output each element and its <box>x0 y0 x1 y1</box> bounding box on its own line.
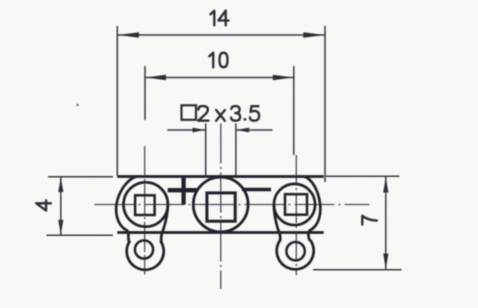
dimension 14: label <box>210 11 228 26</box>
left lower lobe outline <box>127 241 164 270</box>
dimension 14: dimension line <box>117 34 325 36</box>
callout label "2 x 3.5" <box>198 106 259 121</box>
dimension 7: extension line bottom <box>313 269 402 271</box>
right lobe outer silhouette outboard side <box>304 176 320 241</box>
dimension 14: right arrowhead <box>303 32 324 37</box>
dimension 10: extension line left <box>144 66 146 120</box>
dimension 10: label <box>209 53 227 68</box>
dimension 4: label (rotated) <box>36 200 51 210</box>
dimension 10: right arrowhead <box>273 75 294 80</box>
dimension 4: extension line bottom <box>47 234 114 236</box>
right lobe silhouette inboard side <box>274 205 280 241</box>
center square hole <box>207 193 235 221</box>
dimension 2: left arrowhead (pointing right) <box>193 128 206 133</box>
plate bottom edge <box>117 231 323 234</box>
ink speck artifact <box>76 104 78 106</box>
right lower lobe outline <box>277 240 314 269</box>
vertical centerline center lobe <box>220 124 222 290</box>
horizontal centerline through holes <box>95 204 370 206</box>
dimension 2: extension line left <box>205 124 207 176</box>
right square hole <box>285 194 307 215</box>
dimension 2: left leader tail <box>167 129 205 131</box>
dimension 14: left arrowhead <box>118 32 139 37</box>
callout square symbol of "2 x 3.5" <box>182 105 197 120</box>
left lobe silhouette inboard side <box>161 205 168 243</box>
dimension 10: extension line right <box>293 66 295 155</box>
left boss circle <box>124 182 168 226</box>
left round hole <box>135 240 153 258</box>
dimension 10: left arrowhead <box>146 75 167 80</box>
left lobe outer silhouette outboard side <box>116 176 136 242</box>
faint scan speckle <box>0 0 1 1</box>
dimension 4: top arrowhead <box>58 177 63 192</box>
dimension 2: extension line right <box>235 124 237 176</box>
dimension 14: extension line left <box>116 26 118 176</box>
dimension 4: dimension line <box>60 177 62 236</box>
dimension 2: right leader tail <box>236 129 273 131</box>
vertical centerline right lobe <box>295 155 297 275</box>
plate top edge <box>117 175 323 178</box>
dimension 7: extension line top <box>326 175 400 177</box>
center boss circle <box>193 177 248 232</box>
dimension 2: right arrowhead (pointing left) <box>236 128 249 133</box>
right boss circle <box>274 184 315 225</box>
dimension 4: extension line top <box>48 176 113 178</box>
left square hole <box>135 195 155 215</box>
bold cross mark between left and center lobes <box>168 188 198 192</box>
vertical centerline left lobe <box>144 146 146 275</box>
dimension 7: label (rotated) <box>362 216 377 225</box>
dimension 10: dimension line <box>145 77 294 79</box>
dimension 4: bottom arrowhead <box>58 220 63 235</box>
bold dash mark right of center boss <box>242 188 271 192</box>
dimension 7: top arrowhead <box>383 177 388 193</box>
dimension 7: bottom arrowhead <box>383 254 388 270</box>
dimension 7: dimension line <box>385 176 387 270</box>
dimension 14: extension line right <box>324 26 326 182</box>
right round hole <box>286 242 304 260</box>
